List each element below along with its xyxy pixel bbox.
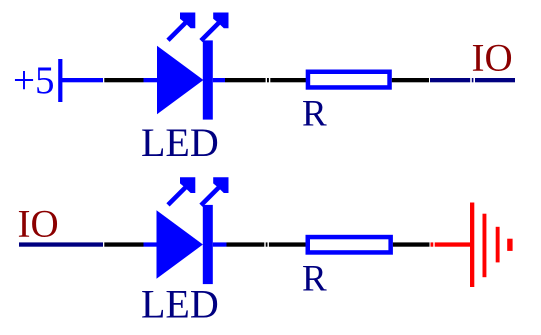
ground bar 1 xyxy=(470,203,474,288)
wire break xyxy=(268,242,269,248)
wire blue stub cathode D1 xyxy=(213,78,225,82)
LED D1 arrow 1 shaft xyxy=(168,21,188,41)
wire blue stub anode D1 xyxy=(144,78,158,82)
wire break xyxy=(266,78,267,84)
wire black right of R1 xyxy=(392,78,429,82)
LED D1 arrow 1 head xyxy=(180,13,195,29)
LED D2 cathode bar xyxy=(203,205,213,284)
LED D1 arrow 2 head xyxy=(213,13,228,29)
svg-text:R: R xyxy=(302,259,327,300)
resistor R1 body xyxy=(308,72,390,88)
wire black LED D1 to resistor R1 xyxy=(225,78,306,82)
wire break xyxy=(269,78,270,84)
wire break xyxy=(433,242,434,248)
ground bar 4 xyxy=(507,239,512,251)
wire break xyxy=(470,78,472,84)
LED D1 triangle anode xyxy=(157,46,203,115)
wire black LED D2 to resistor R2 xyxy=(227,242,307,246)
LED D2 arrow 1 head xyxy=(180,177,195,193)
svg-text:R: R xyxy=(302,93,327,134)
LED D1 cathode bar xyxy=(203,40,213,119)
resistor R2 body xyxy=(308,237,391,252)
wire black left of LED D1 xyxy=(104,78,143,82)
svg-text:IO: IO xyxy=(472,37,513,80)
LED D2 arrow 2 shaft xyxy=(201,186,221,206)
LED D1 arrow 2 shaft xyxy=(201,21,221,40)
wire black right of R2 xyxy=(393,242,430,246)
wire blue stub cathode D2 xyxy=(213,242,227,246)
LED D2 arrow 1 shaft xyxy=(168,185,188,205)
svg-text:IO: IO xyxy=(18,203,59,246)
ground bar 2 xyxy=(483,214,487,278)
wire blue stub anode D2 xyxy=(144,242,157,246)
wire break xyxy=(264,242,265,248)
ground bar 3 xyxy=(496,227,500,263)
svg-text:+5: +5 xyxy=(13,59,55,102)
power bar +5 terminal xyxy=(58,59,62,102)
wire blue from +5 bar xyxy=(62,78,103,82)
svg-text:LED: LED xyxy=(141,282,219,327)
wire navy from IO bottom xyxy=(19,242,103,246)
wire break xyxy=(473,78,475,84)
wire black left of LED D2 xyxy=(104,242,143,246)
wire navy to IO top xyxy=(430,78,515,82)
LED D2 arrow 2 head xyxy=(213,177,228,193)
wire red to ground xyxy=(431,242,471,246)
svg-text:LED: LED xyxy=(141,120,219,165)
LED D2 triangle anode xyxy=(157,210,203,278)
